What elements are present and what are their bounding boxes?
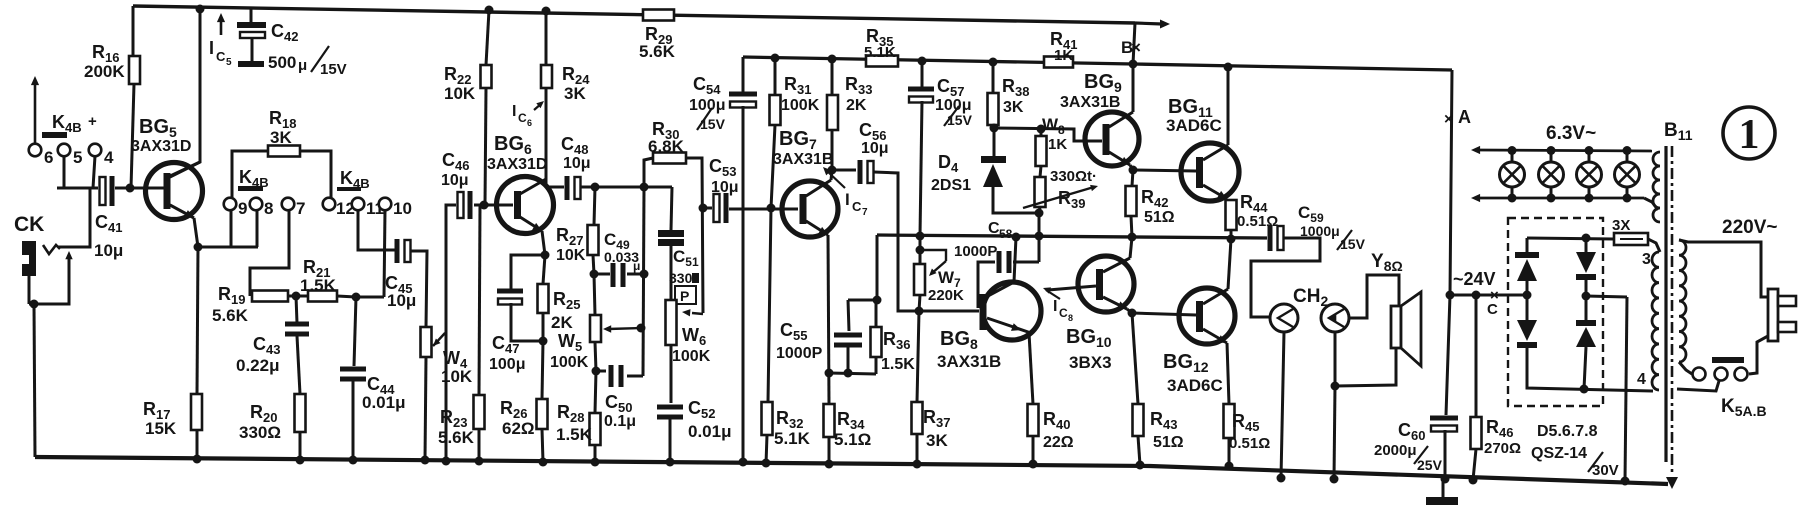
svg-text:15V: 15V: [947, 112, 973, 128]
svg-text:3: 3: [1642, 251, 1651, 268]
svg-text:22Ω: 22Ω: [1043, 434, 1074, 451]
svg-text:I: I: [209, 38, 214, 58]
svg-text:1: 1: [1739, 112, 1760, 158]
svg-text:220V~: 220V~: [1722, 217, 1777, 238]
svg-text:10K: 10K: [556, 247, 586, 264]
svg-text:3BX3: 3BX3: [1069, 353, 1112, 372]
svg-text:0.22μ: 0.22μ: [236, 356, 280, 375]
svg-text:10μ: 10μ: [563, 155, 591, 172]
svg-text:3K: 3K: [926, 431, 948, 450]
svg-text:3AX31D: 3AX31D: [131, 138, 191, 155]
svg-text:100K: 100K: [550, 354, 589, 371]
svg-text:3AX31B: 3AX31B: [773, 151, 833, 168]
svg-text:C: C: [1059, 306, 1068, 320]
svg-text:0.1μ: 0.1μ: [604, 413, 636, 430]
svg-text:2K: 2K: [846, 97, 867, 114]
svg-text:3AX31D: 3AX31D: [487, 156, 547, 173]
svg-text:×: ×: [1131, 38, 1141, 57]
svg-text:μ: μ: [298, 57, 307, 74]
svg-text:330: 330: [669, 270, 693, 286]
svg-text:10: 10: [393, 199, 412, 218]
svg-text:25V: 25V: [1417, 457, 1443, 473]
svg-text:I: I: [512, 103, 516, 120]
svg-text:270Ω: 270Ω: [1484, 440, 1521, 457]
svg-text:A: A: [1458, 107, 1471, 127]
svg-text:5: 5: [73, 148, 82, 167]
svg-text:10μ: 10μ: [711, 179, 739, 196]
svg-text:C: C: [1487, 301, 1498, 318]
svg-text:58: 58: [999, 227, 1013, 241]
svg-text:15V: 15V: [320, 61, 347, 78]
svg-text:3X: 3X: [1612, 217, 1630, 234]
svg-text:μ: μ: [633, 259, 640, 273]
svg-text:8: 8: [264, 199, 273, 218]
svg-text:0.01μ: 0.01μ: [362, 393, 406, 412]
svg-text:QSZ-14: QSZ-14: [1531, 445, 1587, 462]
svg-text:2DS1: 2DS1: [931, 177, 971, 194]
svg-text:P: P: [680, 288, 689, 304]
svg-text:100μ: 100μ: [489, 356, 525, 373]
svg-text:1.5K: 1.5K: [300, 276, 337, 295]
svg-text:C: C: [852, 199, 862, 214]
svg-text:4: 4: [104, 148, 114, 167]
svg-text:3AD6C: 3AD6C: [1167, 376, 1223, 395]
svg-text:6.8K: 6.8K: [648, 137, 685, 156]
svg-text:100K: 100K: [672, 348, 711, 365]
svg-text:+: +: [88, 113, 97, 130]
svg-text:CK: CK: [14, 213, 44, 236]
svg-text:3K: 3K: [564, 84, 586, 103]
svg-text:3AX31B: 3AX31B: [1060, 94, 1120, 111]
svg-text:51Ω: 51Ω: [1153, 434, 1184, 451]
svg-text:I: I: [1053, 298, 1057, 315]
svg-text:62Ω: 62Ω: [502, 419, 535, 438]
svg-text:5: 5: [226, 57, 232, 68]
svg-text:10K: 10K: [444, 84, 476, 103]
svg-text:3AX31B: 3AX31B: [937, 352, 1001, 371]
svg-text:10μ: 10μ: [387, 291, 416, 310]
svg-text:1.5K: 1.5K: [556, 425, 593, 444]
svg-text:6: 6: [527, 118, 532, 128]
svg-text:5.6K: 5.6K: [639, 42, 676, 61]
svg-text:4: 4: [1637, 371, 1646, 388]
svg-text:10μ: 10μ: [441, 172, 469, 189]
svg-text:220K: 220K: [928, 287, 964, 304]
svg-text:30V: 30V: [1592, 462, 1619, 479]
svg-text:3AD6C: 3AD6C: [1166, 116, 1222, 135]
svg-text:100K: 100K: [781, 97, 820, 114]
svg-text:9: 9: [238, 199, 247, 218]
svg-text:5.1K: 5.1K: [774, 429, 811, 448]
svg-text:6.3V~: 6.3V~: [1546, 123, 1596, 144]
svg-text:330Ω: 330Ω: [239, 423, 281, 442]
svg-text:15V: 15V: [700, 116, 726, 132]
svg-text:15K: 15K: [145, 419, 177, 438]
svg-text:330Ωt·: 330Ωt·: [1050, 168, 1097, 185]
svg-text:D5.6.7.8: D5.6.7.8: [1537, 423, 1598, 440]
svg-text:×: ×: [1444, 111, 1453, 128]
svg-text:1000P: 1000P: [776, 345, 823, 362]
svg-text:10μ: 10μ: [94, 241, 123, 260]
svg-text:3K: 3K: [1003, 99, 1024, 116]
svg-text:5.1K: 5.1K: [864, 44, 896, 61]
svg-text:C: C: [216, 49, 226, 64]
svg-text:200K: 200K: [84, 62, 125, 81]
svg-text:500: 500: [268, 53, 296, 72]
svg-text:6: 6: [44, 148, 53, 167]
svg-text:1K: 1K: [1048, 136, 1067, 153]
svg-text:5.1Ω: 5.1Ω: [834, 430, 871, 449]
svg-text:15V: 15V: [1340, 236, 1366, 252]
svg-text:C: C: [518, 111, 527, 125]
svg-text:I: I: [845, 190, 850, 209]
svg-text:1.5K: 1.5K: [881, 356, 915, 373]
svg-text:1K: 1K: [1054, 47, 1073, 64]
svg-text:~24V: ~24V: [1453, 269, 1496, 289]
svg-text:0.01μ: 0.01μ: [688, 422, 732, 441]
svg-text:1000P: 1000P: [954, 243, 997, 260]
svg-text:8: 8: [1068, 313, 1073, 323]
svg-text:2000μ: 2000μ: [1374, 442, 1417, 459]
svg-text:2K: 2K: [551, 313, 573, 332]
svg-text:5.6K: 5.6K: [438, 428, 475, 447]
svg-text:5.6K: 5.6K: [212, 306, 249, 325]
svg-text:7: 7: [862, 207, 868, 218]
svg-text:100μ: 100μ: [689, 97, 725, 114]
svg-text:0.51Ω: 0.51Ω: [1229, 435, 1270, 452]
svg-text:7: 7: [296, 199, 305, 218]
svg-text:51Ω: 51Ω: [1144, 209, 1175, 226]
svg-text:3K: 3K: [270, 128, 292, 147]
svg-text:10μ: 10μ: [861, 140, 889, 157]
